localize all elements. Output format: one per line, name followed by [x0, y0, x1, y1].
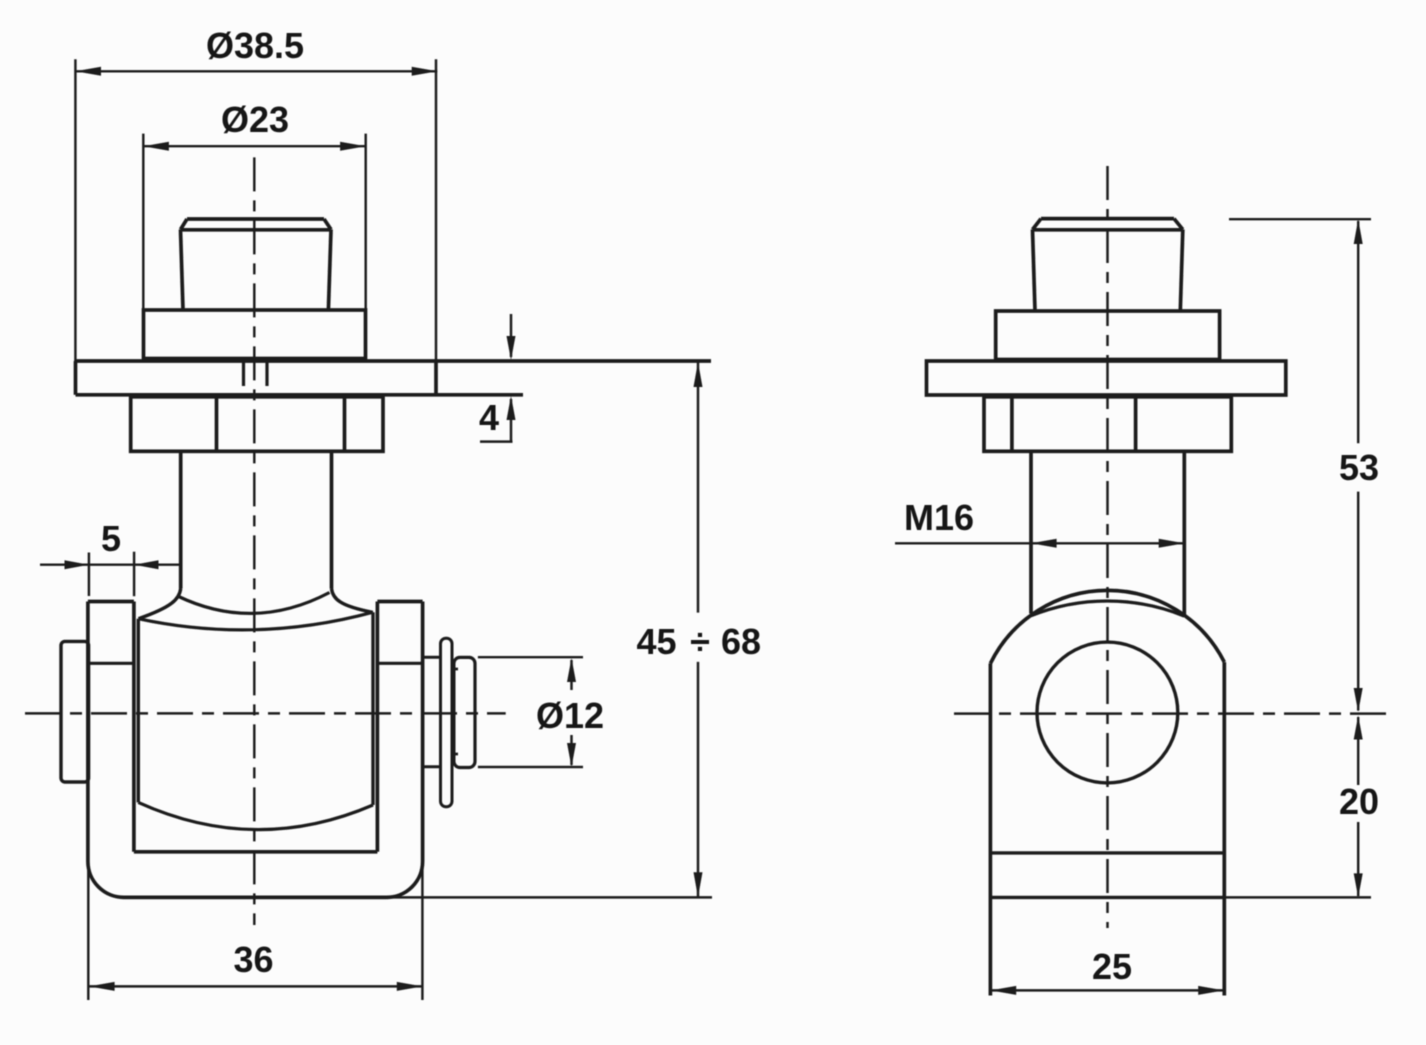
- svg-text:25: 25: [1092, 946, 1132, 987]
- svg-text:5: 5: [101, 518, 121, 559]
- body lower step line: [990, 851, 1224, 854]
- arrows 4: [507, 336, 516, 360]
- pin end disc (right side): [454, 657, 475, 767]
- slot in flange at center: [244, 361, 268, 386]
- body dome arc (side view): [990, 590, 1224, 663]
- pin head (left end): [61, 641, 89, 782]
- svg-text:68: 68: [721, 621, 761, 662]
- pin shaft edges (right side): [423, 657, 441, 767]
- arrows 45÷68: [694, 362, 703, 387]
- svg-text:Ø23: Ø23: [221, 99, 289, 140]
- pin retaining washer (right side): [441, 638, 453, 807]
- arrows M16: [1031, 539, 1057, 548]
- horizontal centerline through pin left view: [25, 712, 506, 714]
- arrows Ø23: [143, 142, 169, 151]
- clevis inner bottom: [134, 850, 378, 854]
- arrows 36: [89, 982, 115, 991]
- dimension 5 (ear thickness): [40, 552, 179, 597]
- shank flare fillets into body: [139, 589, 181, 619]
- svg-text:Ø12: Ø12: [536, 695, 604, 736]
- body bottom arc: [138, 802, 373, 829]
- arrows 53: [1354, 219, 1363, 244]
- arrows Ø38.5: [75, 67, 101, 76]
- clevis ear top edges: [88, 600, 423, 604]
- dimension Ø23: [143, 134, 365, 310]
- svg-text:45: 45: [636, 621, 676, 662]
- vertical centerline left view: [253, 157, 255, 925]
- bolt shank (side view): [1031, 451, 1184, 615]
- dimension 45÷68 (height range): [387, 362, 712, 897]
- svg-text:20: 20: [1339, 781, 1379, 822]
- bolt shank (front view): [181, 451, 332, 588]
- arrows 25: [991, 986, 1017, 995]
- swivel body sides (front view): [138, 612, 373, 805]
- vertical centerline right view: [1106, 166, 1108, 928]
- dimension 20: [1224, 717, 1371, 897]
- flange plate (side view): [927, 361, 1286, 395]
- flange plate (front view): [76, 361, 712, 395]
- arrows 5: [65, 560, 89, 569]
- horizontal centerline right view: [954, 712, 1389, 714]
- hex nut (side view): [984, 397, 1231, 452]
- clevis inner slot edges: [134, 602, 378, 852]
- dimension Ø12 (pin): [478, 657, 583, 767]
- dimension 53: [1229, 219, 1371, 710]
- svg-text:Ø38.5: Ø38.5: [206, 25, 304, 66]
- washer bore ticks: [451, 669, 459, 754]
- dimension 4 (flange thickness): [480, 314, 513, 442]
- svg-text:÷: ÷: [690, 621, 710, 662]
- dimension M16 leader: [895, 542, 1184, 544]
- clevis stirrup outer outline: [88, 602, 423, 898]
- body top arc (lower): [138, 612, 373, 630]
- arrows 20: [1354, 716, 1363, 740]
- arrows Ø12: [567, 658, 576, 682]
- washer under head (side view): [996, 311, 1220, 360]
- bolt head (front view): [181, 219, 332, 310]
- svg-text:36: 36: [233, 939, 273, 980]
- pin hole circle: [1037, 642, 1178, 783]
- ear step lines: [88, 662, 423, 665]
- washer under head (front view): [144, 310, 366, 359]
- body bottom line: [990, 896, 1224, 899]
- dimension Ø38.5: [75, 59, 437, 361]
- svg-text:M16: M16: [904, 497, 974, 538]
- svg-text:4: 4: [479, 397, 499, 438]
- body sides (side view): [990, 662, 1224, 995]
- hex nut (front view): [131, 397, 383, 452]
- seat arc (upper) on body top: [178, 593, 330, 614]
- svg-text:53: 53: [1339, 447, 1379, 488]
- seat arc on dome: [1031, 601, 1184, 616]
- dimension 36 (clevis width): [88, 861, 422, 1000]
- dimension 25: [991, 989, 1224, 991]
- bolt head (side view): [1033, 219, 1183, 311]
